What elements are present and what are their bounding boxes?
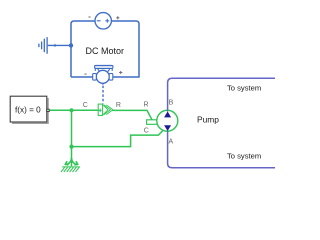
svg-text:R: R: [116, 102, 121, 109]
port label + (source positive): [116, 16, 119, 19]
svg-text:B: B: [169, 99, 174, 106]
wire node B to pump C: [72, 130, 164, 146]
svg-text:DC Motor: DC Motor: [86, 46, 125, 56]
pump flow arrow up: [164, 111, 171, 117]
DC voltage source V1: [95, 13, 111, 29]
svg-text:A: A: [169, 138, 174, 145]
node N1 junction: [69, 43, 73, 47]
wire coupling R to pump R: [112, 110, 152, 119]
pipe pump B to system (top): [168, 78, 275, 111]
svg-text:To system: To system: [227, 151, 261, 160]
electrical reference ground: [39, 38, 47, 54]
port label - (motor negative): [84, 73, 86, 75]
svg-text:f(x) = 0: f(x) = 0: [15, 106, 41, 115]
svg-text:Pump: Pump: [197, 115, 219, 125]
svg-text:R: R: [144, 101, 149, 108]
wire motor shaft to coupling (dashed): [102, 86, 104, 104]
node A junction: [69, 108, 73, 112]
wire source minus to motor minus (left side of loop): [71, 21, 95, 77]
wire solver to node A and coupling C: [49, 109, 98, 111]
DC motor M1: [93, 65, 113, 84]
pump P1 body: [157, 110, 178, 131]
wire node A down to node B and reference: [71, 110, 73, 166]
node B junction: [69, 145, 73, 149]
svg-text:To system: To system: [227, 83, 261, 92]
svg-text:C: C: [83, 102, 88, 109]
solver configuration block f(x) = 0: [10, 96, 48, 123]
ground port tick: [54, 44, 56, 47]
pipe pump A to system (bottom): [168, 131, 275, 168]
wire ground to node N1: [48, 44, 71, 46]
solver port: [47, 109, 49, 111]
wire source plus to motor plus (right side of loop): [111, 21, 139, 77]
port label - (source negative): [88, 16, 90, 18]
pump flow arrow down: [164, 125, 171, 131]
wire node N1 branch to motor minus: [71, 76, 93, 78]
pump mounting bracket: [147, 120, 159, 125]
svg-text:C: C: [144, 128, 149, 135]
port label + (motor positive): [119, 71, 122, 74]
coupling U1 (rotational coupling icon): [98, 104, 113, 115]
mechanical rotational reference ground: [61, 159, 79, 172]
